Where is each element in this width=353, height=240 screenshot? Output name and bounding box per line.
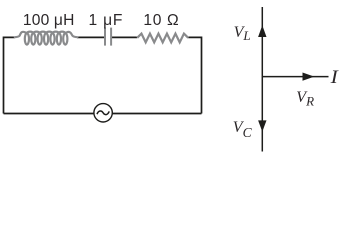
AC source V1 sine tilde xyxy=(97,111,109,115)
wire bottom right xyxy=(112,113,201,115)
phasor VC arrowhead down xyxy=(258,120,266,131)
capacitor C1 plate right xyxy=(110,28,112,46)
capacitor C1 plate left xyxy=(104,28,106,46)
phasor I arrowhead right xyxy=(303,73,315,81)
svg-text:I: I xyxy=(329,68,338,88)
AC source V1 circle xyxy=(94,104,112,122)
svg-text:VL: VL xyxy=(234,24,251,43)
resistor R1 zigzag xyxy=(137,34,188,43)
wire between capacitor and resistor xyxy=(112,36,137,38)
svg-text:10 Ω: 10 Ω xyxy=(143,12,179,29)
phasor vertical axis line xyxy=(261,7,263,152)
svg-text:VC: VC xyxy=(233,119,253,140)
phasor horizontal axis line xyxy=(262,76,328,78)
wire right side of loop xyxy=(188,37,201,113)
inductor L1 coil: top arc chain with leads xyxy=(15,32,78,38)
wire between inductor and capacitor xyxy=(77,36,104,38)
inductor L1 coil: hanging loops xyxy=(25,33,68,44)
svg-text:100 μH: 100 μH xyxy=(23,12,75,29)
svg-text:VR: VR xyxy=(296,89,314,109)
wire left side of loop xyxy=(4,37,15,113)
wire bottom left xyxy=(4,113,95,115)
phasor VL arrowhead up xyxy=(258,25,266,37)
svg-text:1 μF: 1 μF xyxy=(89,12,124,29)
